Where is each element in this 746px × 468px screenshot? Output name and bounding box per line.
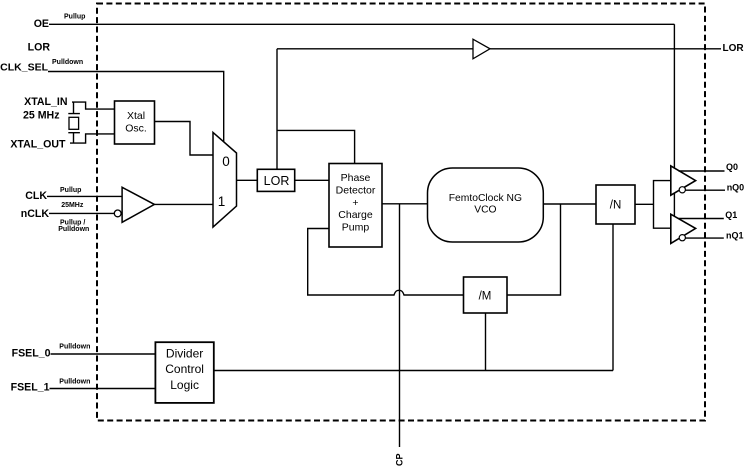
svg-text:CP: CP xyxy=(395,453,405,466)
wire CP node down xyxy=(399,204,401,447)
dashed chip boundary xyxy=(97,4,705,421)
port OE label xyxy=(34,18,49,30)
svg-text:nQ0: nQ0 xyxy=(727,183,745,193)
svg-text:1: 1 xyxy=(218,194,226,209)
output buffer bracket xyxy=(654,181,671,229)
wire buffer to mux input 1 xyxy=(154,203,213,205)
svg-text:Logic: Logic xyxy=(170,378,199,392)
wire FSEL_1 xyxy=(50,388,155,390)
svg-text:nQ1: nQ1 xyxy=(726,230,744,240)
wire LOR block top to LOR output line xyxy=(276,49,278,170)
port CLK_SEL label xyxy=(0,62,48,74)
25MHz label xyxy=(61,202,84,209)
wire OE horizontal xyxy=(49,23,674,25)
inversion bubble nQ1 xyxy=(679,235,685,241)
wire CLK xyxy=(47,195,122,197)
wire tap down to /M xyxy=(507,204,561,295)
output buffer U4 (Q0/nQ0) xyxy=(671,166,696,195)
port FSEL_0 label xyxy=(12,348,51,360)
svg-text:Control: Control xyxy=(165,362,204,376)
mux MX1 xyxy=(213,132,237,227)
svg-text:LOR: LOR xyxy=(723,43,745,54)
svg-text:CLK_SEL: CLK_SEL xyxy=(0,62,48,74)
port CLK label xyxy=(25,190,47,202)
svg-text:/N: /N xyxy=(610,199,622,211)
svg-text:Charge: Charge xyxy=(338,209,373,221)
wire LOR output line xyxy=(277,48,721,50)
svg-text:XTAL_IN: XTAL_IN xyxy=(24,96,67,108)
port Q0 label xyxy=(726,162,738,172)
svg-text:Osc.: Osc. xyxy=(125,122,147,134)
block phase detector / charge pump xyxy=(329,164,382,248)
svg-text:/M: /M xyxy=(479,291,492,303)
svg-text:Pulldown: Pulldown xyxy=(58,226,89,233)
wire Xtal Osc to mux input 0 xyxy=(155,122,214,156)
svg-text:Q1: Q1 xyxy=(725,210,737,220)
port LOR (left, label only) xyxy=(28,42,51,54)
wire /M bottom to divider control line xyxy=(485,313,487,371)
wire divider control logic output xyxy=(214,370,614,372)
wire FSEL_0 xyxy=(51,353,155,355)
svg-text:Pullup: Pullup xyxy=(64,14,85,21)
svg-text:25 MHz: 25 MHz xyxy=(23,110,60,122)
svg-text:LOR: LOR xyxy=(264,174,290,188)
wire branch to phase detector top xyxy=(277,130,355,163)
svg-text:25MHz: 25MHz xyxy=(61,202,84,209)
port FSEL_1 label xyxy=(11,382,50,394)
wire nQ1 xyxy=(685,237,723,239)
wire VCO to /N xyxy=(543,203,596,205)
pullup label (OE) xyxy=(64,14,85,21)
block LOR detector xyxy=(257,169,294,191)
output buffer U5 (Q1/nQ1) xyxy=(671,214,696,243)
svg-text:LOR: LOR xyxy=(28,42,51,54)
pullup label (CLK) xyxy=(60,187,81,194)
port CP label (rotated) xyxy=(395,453,405,466)
inversion bubble nQ0 xyxy=(679,187,685,193)
input buffer U2 (differential) xyxy=(114,187,154,222)
svg-text:Detector: Detector xyxy=(336,184,376,196)
svg-text:OE: OE xyxy=(34,18,49,30)
svg-text:Pullup: Pullup xyxy=(60,187,81,194)
svg-text:Pump: Pump xyxy=(342,222,370,234)
wire XTAL_IN to Xtal Osc xyxy=(72,102,115,109)
wire nCLK xyxy=(49,212,114,214)
svg-text:FSEL_1: FSEL_1 xyxy=(11,382,50,394)
port XTAL_IN label xyxy=(23,96,68,121)
svg-text:CLK: CLK xyxy=(25,190,47,202)
svg-text:Pulldown: Pulldown xyxy=(59,344,90,351)
block divider control logic xyxy=(155,342,213,403)
svg-text:+: + xyxy=(352,197,358,209)
block Xtal Osc U1 xyxy=(115,101,155,144)
svg-text:Q0: Q0 xyxy=(726,162,738,172)
wire LOR block to phase detector xyxy=(295,179,329,181)
port nQ0 label xyxy=(727,183,745,193)
svg-text:Divider: Divider xyxy=(166,347,203,361)
wire OE vertical to output buffers xyxy=(673,24,675,216)
VCO (FemtoClock NG) xyxy=(428,168,544,242)
crystal Y1 xyxy=(68,102,80,143)
svg-text:Xtal: Xtal xyxy=(127,110,145,122)
svg-text:FSEL_0: FSEL_0 xyxy=(12,348,51,360)
port Q1 label xyxy=(725,210,737,220)
port nCLK label xyxy=(21,208,50,220)
pulldown label (FSEL_1) xyxy=(59,378,90,385)
wire CLK_SEL to mux select xyxy=(48,72,224,143)
wire /N bottom to divider control line xyxy=(612,224,614,371)
svg-text:Pulldown: Pulldown xyxy=(52,59,83,66)
svg-text:0: 0 xyxy=(222,154,230,169)
divider /N xyxy=(596,185,635,224)
svg-text:FemtoClock NG: FemtoClock NG xyxy=(449,193,522,204)
svg-text:VCO: VCO xyxy=(474,205,496,216)
port XTAL_OUT label xyxy=(10,138,66,150)
svg-text:Phase: Phase xyxy=(341,172,371,184)
LOR output buffer U3 xyxy=(473,39,490,59)
wire phase detector to VCO xyxy=(382,203,428,205)
wire Q0 xyxy=(679,170,725,172)
svg-text:Pulldown: Pulldown xyxy=(59,378,90,385)
pulldown label (FSEL_0) xyxy=(59,344,90,351)
pullup/pulldown label (nCLK) xyxy=(58,220,89,233)
pulldown label (CLK_SEL) xyxy=(52,59,83,66)
wire XTAL_OUT to Xtal Osc xyxy=(70,134,115,143)
divider /M xyxy=(464,277,508,313)
wire /N to output buffers xyxy=(635,203,654,205)
wire mux to LOR block xyxy=(237,179,258,181)
svg-text:nCLK: nCLK xyxy=(21,208,50,220)
port nQ1 label xyxy=(726,230,744,240)
svg-text:XTAL_OUT: XTAL_OUT xyxy=(10,138,66,150)
port LOR (right) label xyxy=(723,43,745,54)
wire nQ0 xyxy=(685,189,725,191)
wire feedback from /M to phase detector xyxy=(308,229,464,296)
wire Q1 xyxy=(679,218,724,220)
